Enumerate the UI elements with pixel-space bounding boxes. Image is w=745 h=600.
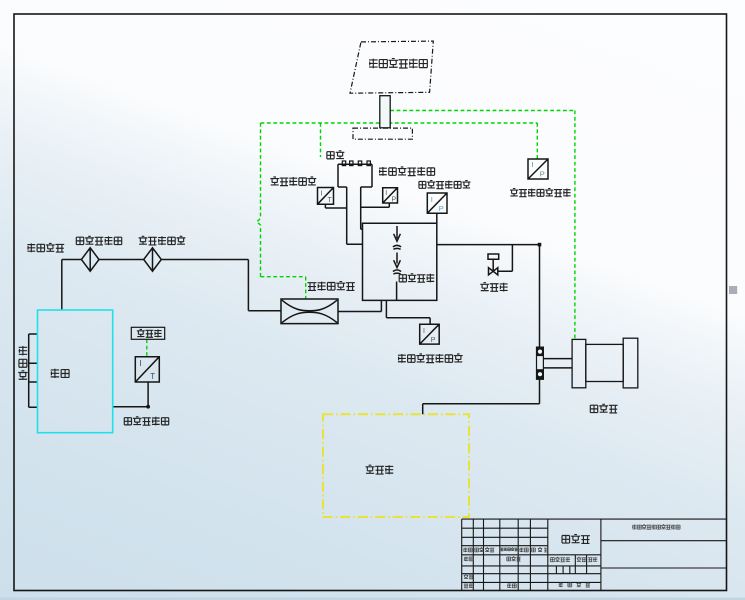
svg-text:I: I	[321, 191, 323, 198]
svg-text:T: T	[328, 197, 333, 204]
svg-text:P: P	[431, 337, 436, 344]
svg-text:I: I	[431, 195, 433, 204]
svg-text:P: P	[392, 197, 397, 204]
svg-text:I: I	[139, 359, 141, 368]
svg-text:I: I	[423, 328, 425, 335]
svg-text:P: P	[540, 170, 545, 179]
svg-text:P: P	[439, 204, 444, 213]
svg-text:I: I	[385, 190, 387, 197]
svg-text:I: I	[532, 160, 534, 169]
svg-text:T: T	[150, 372, 155, 381]
